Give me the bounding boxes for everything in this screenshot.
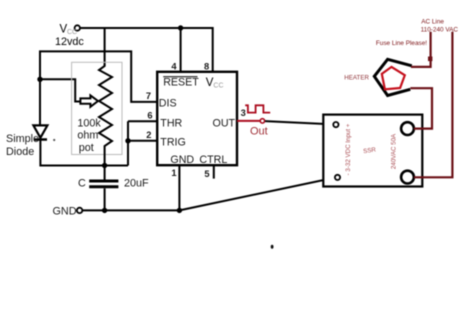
svg-text:DIS: DIS: [159, 97, 177, 109]
svg-text:Out: Out: [250, 125, 268, 137]
label THR: [160, 118, 182, 130]
wire pot bottom to capacitor: [104, 148, 106, 180]
wire wiper feed: [40, 79, 80, 101]
wire GND rail: [82, 209, 179, 211]
junction pin1/GND: [177, 208, 182, 213]
label GND CTRL: [170, 154, 227, 166]
capacitor C 20uF: [89, 181, 118, 187]
label VCC 12vdc: [55, 23, 84, 48]
svg-text:pot: pot: [79, 142, 94, 154]
svg-text:GND: GND: [170, 154, 194, 166]
wire pin4 drop: [180, 28, 182, 72]
label HEATER: [344, 75, 369, 82]
heater element outline: [374, 59, 412, 95]
wire top-left loop to DIS pin7: [40, 51, 158, 125]
svg-text:4: 4: [171, 61, 177, 71]
pin 5: [204, 169, 209, 179]
wire pot top to VCC: [104, 28, 106, 66]
stray dot: [271, 245, 274, 249]
label DIS: [159, 97, 177, 109]
svg-text:240VAC 50A: 240VAC 50A: [390, 133, 397, 169]
label 3-32 VDC Input: [345, 123, 352, 175]
pin 8: [204, 61, 209, 71]
label C: [78, 177, 86, 189]
label OUT: [213, 118, 236, 130]
svg-text:Simple: Simple: [6, 133, 39, 145]
wire VCC rail top: [80, 27, 213, 29]
wire THR-TRIG vertical: [127, 121, 129, 165]
wire TRIG pin2: [128, 140, 158, 142]
label VCC pin: [206, 77, 224, 90]
svg-text:TRIG: TRIG: [160, 137, 186, 149]
label Out: [250, 125, 268, 137]
node SSR input- terminal: [335, 175, 340, 180]
svg-text:Diode: Diode: [6, 146, 34, 158]
wire THR pin6: [128, 120, 158, 122]
pin 3: [241, 108, 246, 118]
node GND terminal: [77, 208, 82, 213]
junction TRIG: [125, 138, 130, 143]
svg-text:RESET: RESET: [163, 77, 199, 89]
junction pot bottom: [102, 163, 107, 168]
junction cap/GND: [102, 208, 107, 213]
label 240VAC 50A: [390, 133, 397, 169]
svg-text:8: 8: [204, 61, 209, 71]
svg-text:110-240 VAC: 110-240 VAC: [421, 27, 459, 34]
op-amp U1 555 timer body: [157, 72, 237, 165]
wiper arrow of potentiometer: [80, 95, 98, 106]
wire capacitor to GND rail: [104, 188, 106, 210]
wire pin5 CTRL stub: [213, 165, 215, 178]
heater element red coil: [382, 67, 405, 89]
junction node A wiper tap: [37, 77, 42, 82]
svg-text:CC: CC: [67, 29, 77, 36]
svg-text:Fuse Line Please!: Fuse Line Please!: [376, 40, 427, 47]
pin 7: [146, 91, 151, 101]
svg-text:ohm: ohm: [77, 130, 98, 142]
svg-text:C: C: [78, 177, 86, 189]
potentiometer enclosure box: [72, 62, 122, 154]
relay SSR body: [323, 115, 422, 187]
svg-text:100k: 100k: [77, 117, 101, 129]
wire heater bottom lead to SSR output AC1: [410, 88, 432, 128]
diode D1 simple diode: [33, 125, 47, 139]
pin 6: [147, 110, 152, 120]
svg-text:1: 1: [171, 168, 176, 178]
wire heater top lead to AC line: [411, 32, 431, 67]
wire AC neutral to SSR output AC2: [414, 32, 453, 178]
label 110-240 VAC: [421, 27, 459, 34]
wire pin1 GND: [178, 165, 180, 210]
wire diode cathode to TRIG line: [40, 140, 128, 166]
svg-text:GND: GND: [53, 206, 77, 218]
svg-text:- 3-32 VDC Input +: - 3-32 VDC Input +: [345, 123, 352, 175]
svg-text:3: 3: [241, 108, 246, 118]
wire OUT red: [237, 120, 260, 122]
square wave symbol: [245, 105, 270, 112]
svg-text:20uF: 20uF: [124, 178, 149, 190]
pin 2: [146, 130, 151, 140]
node SSR input+ terminal: [333, 122, 338, 127]
svg-text:6: 6: [147, 110, 152, 120]
wire Out to SSR input+: [265, 121, 333, 124]
svg-text:CTRL: CTRL: [199, 154, 227, 166]
node SSR output AC2 terminal: [401, 171, 414, 184]
node VCC terminal: [75, 25, 80, 30]
label 100k ohm pot: [77, 117, 101, 154]
label AC Line: [421, 19, 444, 26]
label Fuse Line Please: [376, 40, 427, 47]
label RESET with overline: [163, 77, 199, 89]
label TRIG: [160, 137, 186, 149]
svg-text:12vdc: 12vdc: [55, 36, 84, 48]
resistor 100k pot zigzag: [99, 64, 112, 148]
label GND: [53, 206, 77, 218]
svg-text:5: 5: [204, 169, 209, 179]
svg-text:OUT: OUT: [213, 118, 236, 130]
svg-text:CC: CC: [213, 83, 223, 90]
svg-text:HEATER: HEATER: [344, 75, 369, 82]
pin 4: [171, 61, 177, 71]
fuse mark on line: [428, 57, 432, 62]
junction pin4/VCC: [178, 25, 183, 30]
label Simple Diode: [6, 133, 55, 158]
label SSR: [363, 146, 377, 155]
node SSR output AC1 terminal: [401, 122, 414, 135]
label 20uF: [124, 178, 149, 190]
svg-text:THR: THR: [160, 118, 182, 130]
wire GND to SSR input-: [179, 178, 335, 211]
node Out terminal: [260, 119, 264, 123]
pin 1: [171, 168, 176, 178]
wire pin8 drop: [212, 27, 214, 72]
svg-text:7: 7: [146, 91, 151, 101]
svg-text:2: 2: [146, 130, 151, 140]
svg-text:AC Line: AC Line: [421, 19, 444, 26]
